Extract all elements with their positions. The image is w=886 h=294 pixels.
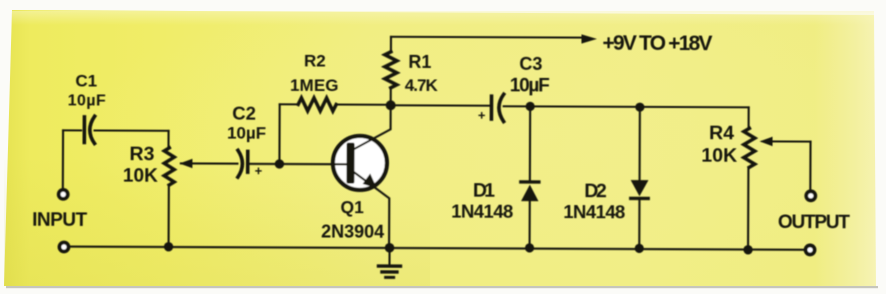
svg-text:R4: R4 [709, 122, 734, 144]
svg-text:R3: R3 [129, 143, 154, 165]
svg-text:10µF: 10µF [510, 75, 550, 96]
svg-text:Q1: Q1 [341, 197, 365, 217]
svg-text:10µF: 10µF [68, 92, 106, 109]
svg-text:1MEG: 1MEG [290, 76, 339, 95]
svg-text:10K: 10K [123, 166, 158, 187]
svg-text:C3: C3 [519, 54, 542, 74]
svg-text:10µF: 10µF [227, 124, 266, 143]
svg-text:1N4148: 1N4148 [451, 201, 513, 222]
svg-text:+: + [478, 108, 486, 123]
svg-text:D1: D1 [473, 180, 495, 202]
svg-text:R2: R2 [304, 51, 326, 70]
svg-text:OUTPUT: OUTPUT [778, 212, 850, 233]
svg-text:D2: D2 [584, 180, 607, 202]
svg-text:4.7K: 4.7K [405, 76, 439, 95]
svg-text:INPUT: INPUT [32, 210, 87, 231]
svg-text:10K: 10K [701, 145, 737, 167]
svg-text:2N3904: 2N3904 [321, 221, 384, 241]
svg-text:C2: C2 [232, 103, 256, 124]
svg-text:1N4148: 1N4148 [563, 201, 625, 222]
svg-text:R1: R1 [408, 52, 431, 72]
svg-text:+: + [255, 163, 263, 178]
svg-text:+9V TO +18V: +9V TO +18V [602, 32, 712, 55]
svg-text:C1: C1 [75, 71, 97, 90]
